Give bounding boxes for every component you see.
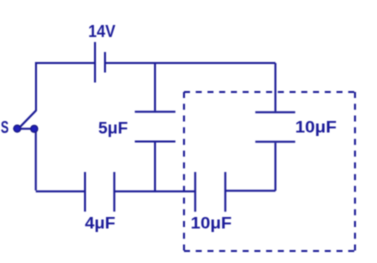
switch S blade (diagonal): [20, 111, 37, 128]
capacitor C4 4uF right plate: [113, 172, 115, 212]
svg-text:14V: 14V: [88, 21, 115, 41]
capacitor C4 4uF left plate: [84, 172, 86, 212]
svg-text:10μF: 10μF: [295, 117, 337, 136]
capacitor C3 10uF right plate: [224, 172, 226, 212]
wire bottom-middle horizontal: [114, 190, 195, 192]
wire left vertical upper: [35, 62, 37, 111]
wire bottom-right horizontal: [225, 190, 275, 192]
svg-text:5μF: 5μF: [98, 119, 128, 137]
wire top-left horizontal: [35, 62, 94, 64]
capacitor C3 10uF left plate: [194, 172, 196, 212]
svg-text:10μF: 10μF: [191, 214, 232, 233]
wire C2 bottom stub to corner: [274, 143, 276, 191]
dashed enclosure box bottom edge: [184, 250, 355, 252]
wire right vertical upper: [274, 63, 276, 111]
capacitor C2 10uF bottom plate: [255, 141, 295, 143]
capacitor C2 10uF top plate: [255, 111, 295, 113]
switch S contact link: [17, 128, 34, 130]
wire left vertical lower: [35, 131, 37, 191]
dashed enclosure box left edge: [183, 92, 185, 251]
svg-text:S: S: [1, 117, 9, 137]
wire C1 bottom stub: [154, 143, 156, 192]
battery V1 14V short plate (-): [104, 52, 106, 73]
switch S left contact dot: [13, 125, 21, 133]
wire junction stub to C1 top: [154, 63, 156, 111]
capacitor C1 5uF bottom plate: [135, 141, 176, 143]
svg-text:4μF: 4μF: [85, 215, 116, 233]
dashed enclosure box top edge: [184, 91, 355, 93]
capacitor C1 5uF top plate: [135, 111, 176, 113]
battery V1 14V long plate (+): [94, 42, 96, 83]
switch S right contact dot: [30, 125, 38, 133]
dashed enclosure box right edge: [354, 92, 356, 251]
wire bottom-left horizontal: [36, 190, 85, 192]
wire top horizontal (battery to right corner): [106, 62, 275, 64]
